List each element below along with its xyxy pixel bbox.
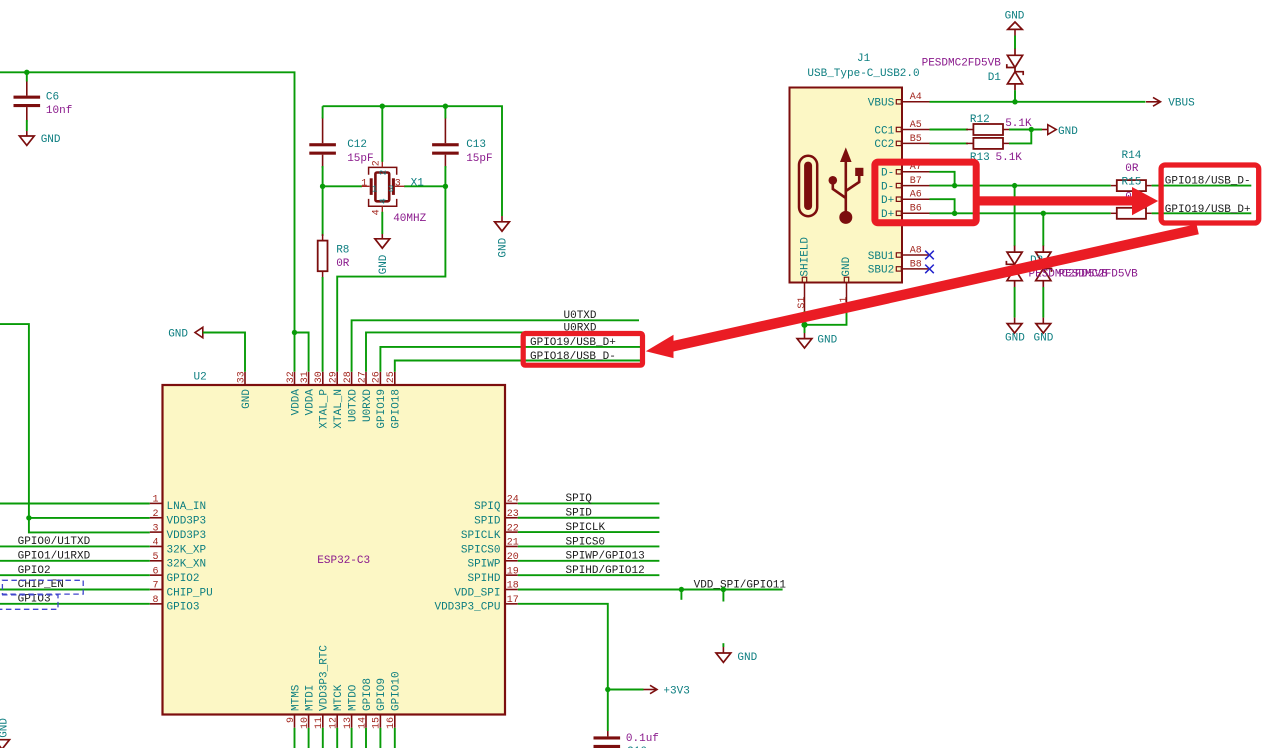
resistor R15 pin right [1146, 212, 1152, 214]
ground D1 stub [1014, 29, 1016, 35]
wire D3 top [1042, 213, 1044, 246]
ground C6 stub [26, 131, 28, 136]
junction VDD_SPI b [721, 587, 726, 592]
svg-text:R12: R12 [970, 114, 990, 126]
wire A6 [930, 199, 955, 213]
svg-text:R8: R8 [336, 244, 349, 256]
J1 pin A5 CC1 stub [902, 129, 930, 131]
wire CHIP_EN [0, 589, 150, 591]
wire SPID [518, 517, 660, 519]
ground bottom-left arrow [0, 740, 10, 748]
crystal X1 case bottom bracket [369, 199, 397, 206]
svg-text:SPICLK: SPICLK [566, 522, 606, 534]
power +3V3 arrow [644, 685, 658, 693]
capacitor C16 plates [594, 736, 621, 739]
wire CC1 [930, 129, 969, 131]
crystal X1 electrode right [392, 178, 395, 195]
svg-text:A6: A6 [910, 190, 922, 201]
wire GPIO1/U1RXD [0, 560, 150, 562]
J1 pin A8 SBU1 stub [902, 254, 930, 256]
capacitor C13 pin bottom [444, 155, 446, 168]
svg-text:C12: C12 [347, 139, 367, 151]
junction C13 top [443, 104, 448, 109]
wire GPIO18/USB_D- [395, 361, 641, 372]
annotation box right labels [1161, 165, 1259, 223]
svg-text:U0RXD: U0RXD [362, 389, 374, 422]
svg-text:C13: C13 [466, 139, 486, 151]
ground D3 stub [1042, 318, 1044, 324]
junction B6 D3 [1041, 211, 1046, 216]
svg-text:1: 1 [372, 184, 378, 195]
svg-text:D-: D- [881, 168, 894, 180]
wire SPIHD/GPIO12 [518, 574, 660, 576]
svg-text:MTMS: MTMS [290, 684, 302, 711]
svg-text:3: 3 [395, 179, 401, 190]
svg-text:GND: GND [1034, 333, 1054, 345]
wire U2 pin 10 down [308, 728, 310, 748]
wire S1 down [804, 311, 806, 325]
U2 pin 20 stub [505, 560, 518, 562]
resistor R14 pin right [1146, 185, 1152, 187]
svg-text:GPIO2: GPIO2 [18, 565, 51, 577]
svg-text:0R: 0R [1125, 163, 1139, 175]
J1 pin A6 D+ stub [902, 198, 930, 200]
svg-text:SPICLK: SPICLK [461, 530, 501, 542]
svg-text:X1: X1 [411, 178, 425, 190]
wire xtal left down to R8 [322, 186, 324, 236]
svg-text:C6: C6 [46, 92, 59, 104]
svg-text:0R: 0R [336, 258, 350, 270]
U2 pin 16 stub [394, 715, 396, 728]
svg-text:VDDA: VDDA [290, 389, 302, 416]
ground CC stub [1042, 129, 1048, 131]
svg-text:MTDO: MTDO [347, 684, 359, 711]
svg-text:GND: GND [817, 334, 837, 346]
wire xtal right down [337, 186, 445, 371]
U2 pin 18 stub [505, 589, 518, 591]
wire rail to C13 [444, 106, 446, 118]
svg-text:VDDA: VDDA [304, 389, 316, 416]
wire C6 to gnd [26, 120, 28, 131]
crystal X1 case top bracket [369, 167, 397, 174]
svg-text:VBUS: VBUS [868, 98, 895, 110]
resistor R13 [973, 138, 1003, 149]
U2 pin 15 stub [379, 715, 381, 728]
svg-text:15pF: 15pF [347, 153, 373, 165]
resistor R8 pin bottom [322, 271, 324, 277]
node GPIO3 dashed box [0, 595, 58, 609]
wire SPICLK [518, 531, 660, 533]
svg-text:SBU2: SBU2 [868, 265, 894, 277]
ground C13 stub [501, 216, 503, 222]
power VBUS arrow [1146, 97, 1161, 106]
U2 pin 3 stub [150, 531, 163, 533]
svg-text:CC1: CC1 [874, 125, 894, 137]
junction A7 B7 [952, 183, 957, 188]
wire C12 to xtal row [322, 166, 324, 186]
junction pin2 wire [26, 515, 31, 520]
J1 usb trident icon [829, 147, 864, 224]
ground VDD_SPI [716, 653, 731, 662]
resistor R14 pin left [1111, 185, 1117, 187]
svg-text:GND: GND [498, 237, 510, 257]
svg-text:B6: B6 [910, 204, 922, 215]
wire pin32 branch to pin31 [295, 333, 309, 372]
wire rail to C12 [322, 106, 324, 118]
svg-text:GPIO10: GPIO10 [391, 671, 403, 711]
U2 pin 13 stub [351, 715, 353, 728]
annotation box D pins [875, 162, 976, 223]
svg-text:VDD3P3_CPU: VDD3P3_CPU [434, 602, 500, 614]
U2 pin 30 stub [322, 372, 324, 385]
wire D3 bottom [1042, 287, 1044, 318]
capacitor C6 pin bottom [26, 107, 28, 122]
wire xtal top rail [323, 106, 502, 216]
wire C6 top stub [26, 72, 28, 81]
U2 pin 31 stub [308, 372, 310, 385]
junction xtal right [443, 184, 448, 189]
U2 pin 2 stub [150, 517, 163, 519]
svg-text:VDD3P3_RTC: VDD3P3_RTC [319, 645, 331, 711]
ground D2 stub [1014, 318, 1016, 324]
svg-text:22: 22 [507, 523, 519, 534]
resistor R13 pin left [966, 142, 973, 144]
svg-text:SPID: SPID [474, 516, 501, 528]
ground C13 branch [495, 222, 510, 231]
svg-text:8: 8 [152, 595, 158, 606]
svg-text:0.1uf: 0.1uf [626, 733, 659, 745]
svg-text:2: 2 [371, 160, 382, 166]
svg-text:GND: GND [1058, 126, 1078, 138]
ground VDD_SPI stub [722, 647, 724, 653]
svg-text:4: 4 [371, 209, 382, 215]
resistor R8 [318, 241, 328, 272]
wire U2 pin 11 down [322, 728, 324, 748]
resistor R15 [1117, 208, 1146, 219]
wire xtal pin3 [404, 185, 445, 187]
svg-text:A8: A8 [910, 245, 922, 256]
svg-text:SPIWP: SPIWP [467, 559, 500, 571]
U2 pin 17 stub [505, 603, 518, 605]
J1 pin B8 SBU2 stub [902, 268, 930, 270]
svg-text:SPICS0: SPICS0 [461, 544, 501, 556]
capacitor C6 pin top [26, 81, 28, 96]
wire U0TXD [352, 320, 639, 372]
svg-text:VDD_SPI/GPIO11: VDD_SPI/GPIO11 [694, 579, 787, 591]
J1 usb-c receptacle icon [799, 156, 817, 216]
junction xtal pin2 top [380, 104, 385, 109]
capacitor C12 pin bottom [322, 155, 324, 168]
svg-text:15: 15 [372, 717, 383, 729]
svg-text:U0TXD: U0TXD [347, 389, 359, 422]
svg-text:2: 2 [152, 509, 158, 520]
svg-text:32K_XP: 32K_XP [167, 544, 207, 556]
svg-text:26: 26 [372, 371, 383, 383]
junction VDD_SPI a [679, 587, 684, 592]
svg-text:MTCK: MTCK [333, 684, 345, 711]
svg-text:GPIO18: GPIO18 [391, 389, 403, 429]
wire U2 pin 13 down [351, 728, 353, 748]
svg-text:GND: GND [1005, 333, 1025, 345]
wire U2 pin 15 down [379, 728, 381, 748]
wire VDD3P3_CPU [518, 604, 608, 690]
svg-text:D1: D1 [988, 72, 1002, 84]
wire GPIO19/USB_D+ [380, 347, 641, 372]
junction A6 B6 [952, 211, 957, 216]
svg-text:21: 21 [507, 538, 519, 549]
svg-text:25: 25 [386, 371, 397, 383]
U2 pin 10 stub [308, 715, 310, 728]
svg-text:SBU1: SBU1 [868, 251, 895, 263]
U2 pin 23 stub [505, 517, 518, 519]
ground xtal [375, 239, 390, 248]
wire C13 to xtal row [444, 166, 446, 186]
U2 pin 27 stub [365, 372, 367, 385]
U2 pin 28 stub [351, 372, 353, 385]
wire VDD_SPI stub b [722, 590, 724, 602]
wire SPIQ [518, 502, 660, 504]
wire U0RXD [366, 332, 637, 371]
wire R13 up to junction [1009, 130, 1031, 144]
svg-text:18: 18 [507, 581, 519, 592]
junction CC gnd [1029, 127, 1034, 132]
svg-text:S1: S1 [797, 297, 808, 309]
svg-text:9: 9 [286, 717, 297, 723]
annotation arrow horizontal [977, 187, 1158, 215]
crystal X1 pin3 line [395, 185, 405, 187]
U2 pin 12 stub [336, 715, 338, 728]
resistor R12 [973, 124, 1003, 135]
capacitor C6 [14, 96, 41, 99]
svg-text:MTDI: MTDI [304, 685, 316, 711]
svg-text:U0TXD: U0TXD [564, 310, 597, 322]
svg-text:A4: A4 [910, 92, 922, 103]
U2 pin 14 stub [365, 715, 367, 728]
svg-text:40MHZ: 40MHZ [393, 213, 426, 225]
crystal X1 pin4 line [381, 206, 383, 212]
svg-text:GPIO19/USB_D+: GPIO19/USB_D+ [530, 337, 616, 349]
svg-text:SPIHD: SPIHD [467, 573, 500, 585]
svg-text:30: 30 [314, 371, 325, 383]
wire U2 pin 9 down [294, 728, 296, 748]
wire D2 top [1014, 186, 1016, 247]
junction xtal left [320, 184, 325, 189]
svg-text:USB_Type-C_USB2.0: USB_Type-C_USB2.0 [807, 68, 919, 80]
wire A1 down [805, 311, 847, 325]
svg-text:29: 29 [329, 371, 340, 383]
annotation box esp labels [523, 334, 642, 366]
svg-text:15pF: 15pF [466, 153, 492, 165]
junction pin32 wire [292, 330, 297, 335]
wire gnd to pin33 [203, 333, 245, 372]
U2 pin 1 stub [150, 502, 163, 504]
U2 pin 6 stub [150, 574, 163, 576]
svg-text:GND: GND [1005, 11, 1025, 23]
U2 pin 22 stub [505, 531, 518, 533]
U2 pin 11 stub [322, 715, 324, 728]
wire to +3V3 [608, 689, 644, 691]
svg-text:GND: GND [378, 254, 390, 274]
svg-text:B8: B8 [910, 259, 922, 270]
wire VDD_SPI stub a [680, 590, 682, 600]
svg-text:GPIO18/USB_D-: GPIO18/USB_D- [530, 351, 616, 363]
svg-text:11: 11 [314, 717, 325, 729]
wire GPIO0/U1TXD [0, 545, 150, 547]
U2 pin 24 stub [505, 502, 518, 504]
svg-text:17: 17 [507, 595, 519, 606]
svg-text:6: 6 [152, 566, 158, 577]
svg-text:GPIO18/USB_D-: GPIO18/USB_D- [1165, 175, 1251, 187]
resistor R12 pin right [1003, 129, 1009, 131]
svg-text:VBUS: VBUS [1168, 98, 1195, 110]
U2 pin 7 stub [150, 589, 163, 591]
wire R15 out [1152, 212, 1252, 214]
svg-text:VDD_SPI: VDD_SPI [454, 587, 500, 599]
svg-text:14: 14 [357, 717, 368, 729]
wire R12 to gnd [1009, 129, 1042, 131]
ground xtal stub [381, 234, 383, 239]
wire U2 pin 16 down [394, 728, 396, 748]
ground D3 [1036, 324, 1051, 333]
U2 pin 26 stub [379, 372, 381, 385]
svg-text:GND: GND [168, 328, 188, 340]
svg-text:1: 1 [152, 495, 158, 506]
svg-text:31: 31 [300, 371, 311, 383]
wire GPIO2 [0, 574, 150, 576]
svg-text:10: 10 [300, 717, 311, 729]
capacitor C12 [309, 143, 336, 146]
wire GPIO3 [0, 603, 150, 605]
ground shield [797, 339, 812, 348]
svg-text:VDD3P3: VDD3P3 [167, 530, 207, 542]
wire xtal pin1 [323, 185, 362, 187]
svg-text:SPIWP/GPIO13: SPIWP/GPIO13 [566, 551, 645, 563]
svg-text:SPIQ: SPIQ [474, 501, 501, 513]
ground D2 [1007, 324, 1022, 333]
junction VBUS D1 [1012, 99, 1017, 104]
U2 pin 32 stub [294, 372, 296, 385]
svg-text:5.1K: 5.1K [996, 152, 1023, 164]
resistor R14 [1117, 180, 1146, 191]
ground U2-33 arrow [195, 327, 203, 338]
svg-text:3: 3 [388, 184, 394, 195]
U2 pin 5 stub [150, 560, 163, 562]
svg-text:5: 5 [152, 552, 158, 563]
svg-text:GND: GND [241, 389, 253, 409]
svg-text:SPIHD/GPIO12: SPIHD/GPIO12 [566, 565, 645, 577]
svg-text:GPIO9: GPIO9 [376, 678, 388, 711]
svg-text:U2: U2 [194, 372, 207, 384]
svg-text:1: 1 [361, 179, 367, 190]
wire B7 GPIO18 [930, 185, 1111, 187]
connector J1 body [790, 88, 903, 283]
junction +3V3 [605, 687, 610, 692]
wire xtal pin2 up [381, 106, 383, 162]
wire R14 out [1152, 185, 1252, 187]
wire B6 GPIO19 [930, 212, 1111, 214]
wire U2 pin 14 down [365, 728, 367, 748]
wire VDD_SPI/GPIO11 [518, 589, 783, 591]
U2 pin 19 stub [505, 574, 518, 576]
svg-text:GPIO1/U1RXD: GPIO1/U1RXD [18, 550, 91, 562]
svg-text:13: 13 [343, 717, 354, 729]
svg-text:CC2: CC2 [874, 139, 894, 151]
svg-text:GND: GND [841, 256, 853, 276]
svg-text:GND: GND [737, 652, 757, 664]
svg-text:GPIO2: GPIO2 [167, 573, 200, 585]
svg-text:GPIO19: GPIO19 [376, 389, 388, 429]
svg-text:XTAL_P: XTAL_P [319, 389, 331, 429]
node CHIP_EN dashed box [2, 580, 83, 594]
svg-text:J1: J1 [857, 53, 871, 65]
crystal X1 pin1 line [362, 185, 370, 187]
svg-text:23: 23 [507, 509, 519, 520]
U2 pin 21 stub [505, 545, 518, 547]
wire SPICS0 [518, 545, 660, 547]
wire VDD3P3 top rail [0, 72, 295, 372]
crystal X1 pin2 line [381, 161, 383, 167]
svg-text:R15: R15 [1122, 176, 1142, 188]
svg-text:32: 32 [286, 371, 297, 383]
svg-text:32K_XN: 32K_XN [167, 559, 207, 571]
J1 pin A4 VBUS stub [902, 101, 930, 103]
svg-text:2: 2 [377, 169, 388, 175]
svg-text:7: 7 [152, 581, 158, 592]
junction B7 D2 [1012, 183, 1017, 188]
svg-text:GPIO0/U1TXD: GPIO0/U1TXD [18, 536, 91, 548]
svg-text:5.1K: 5.1K [1005, 118, 1032, 130]
svg-text:XTAL_N: XTAL_N [333, 389, 345, 429]
diode D3 TVS [1035, 246, 1051, 288]
svg-text:VDD3P3: VDD3P3 [167, 516, 207, 528]
U2 pin 4 stub [150, 545, 163, 547]
svg-text:4: 4 [152, 538, 158, 549]
ground D1 arrow [1008, 22, 1022, 29]
U2 pin 9 stub [294, 715, 296, 728]
wire D1 bottom [1014, 90, 1016, 102]
svg-text:GPIO3: GPIO3 [167, 602, 200, 614]
svg-text:SHIELD: SHIELD [800, 237, 812, 277]
svg-text:28: 28 [343, 371, 354, 383]
diode D2 TVS [1006, 246, 1022, 288]
wire gnd stub mid [722, 643, 724, 647]
wire VDD3P3 feeder left [0, 324, 150, 532]
svg-text:SPICS0: SPICS0 [566, 536, 606, 548]
U2 pin 33 stub [244, 372, 246, 385]
capacitor C13 [432, 143, 459, 146]
wire A7 [930, 172, 955, 186]
J1 pin A7 D- stub [902, 171, 930, 173]
crystal X1 body [375, 173, 389, 202]
U2 pin 29 stub [336, 372, 338, 385]
svg-text:19: 19 [507, 566, 519, 577]
J1 pin S1 stub [804, 283, 806, 312]
wire SPIWP/GPIO13 [518, 560, 660, 562]
svg-text:GPIO19/USB_D+: GPIO19/USB_D+ [1165, 204, 1251, 216]
svg-text:24: 24 [507, 495, 519, 506]
U2 pin 25 stub [394, 372, 396, 385]
resistor R13 pin right [1003, 142, 1009, 144]
svg-text:16: 16 [386, 717, 397, 729]
wire R8 to pin30 [322, 277, 324, 372]
wire to pin2 [29, 517, 150, 519]
J1 pin B5 CC2 stub [902, 142, 930, 144]
capacitor C16 pin top [607, 731, 609, 736]
svg-text:33: 33 [236, 371, 247, 383]
svg-text:CHIP_PU: CHIP_PU [167, 587, 213, 599]
svg-text:GPIO8: GPIO8 [362, 678, 374, 711]
junction shield gnd [801, 322, 807, 328]
